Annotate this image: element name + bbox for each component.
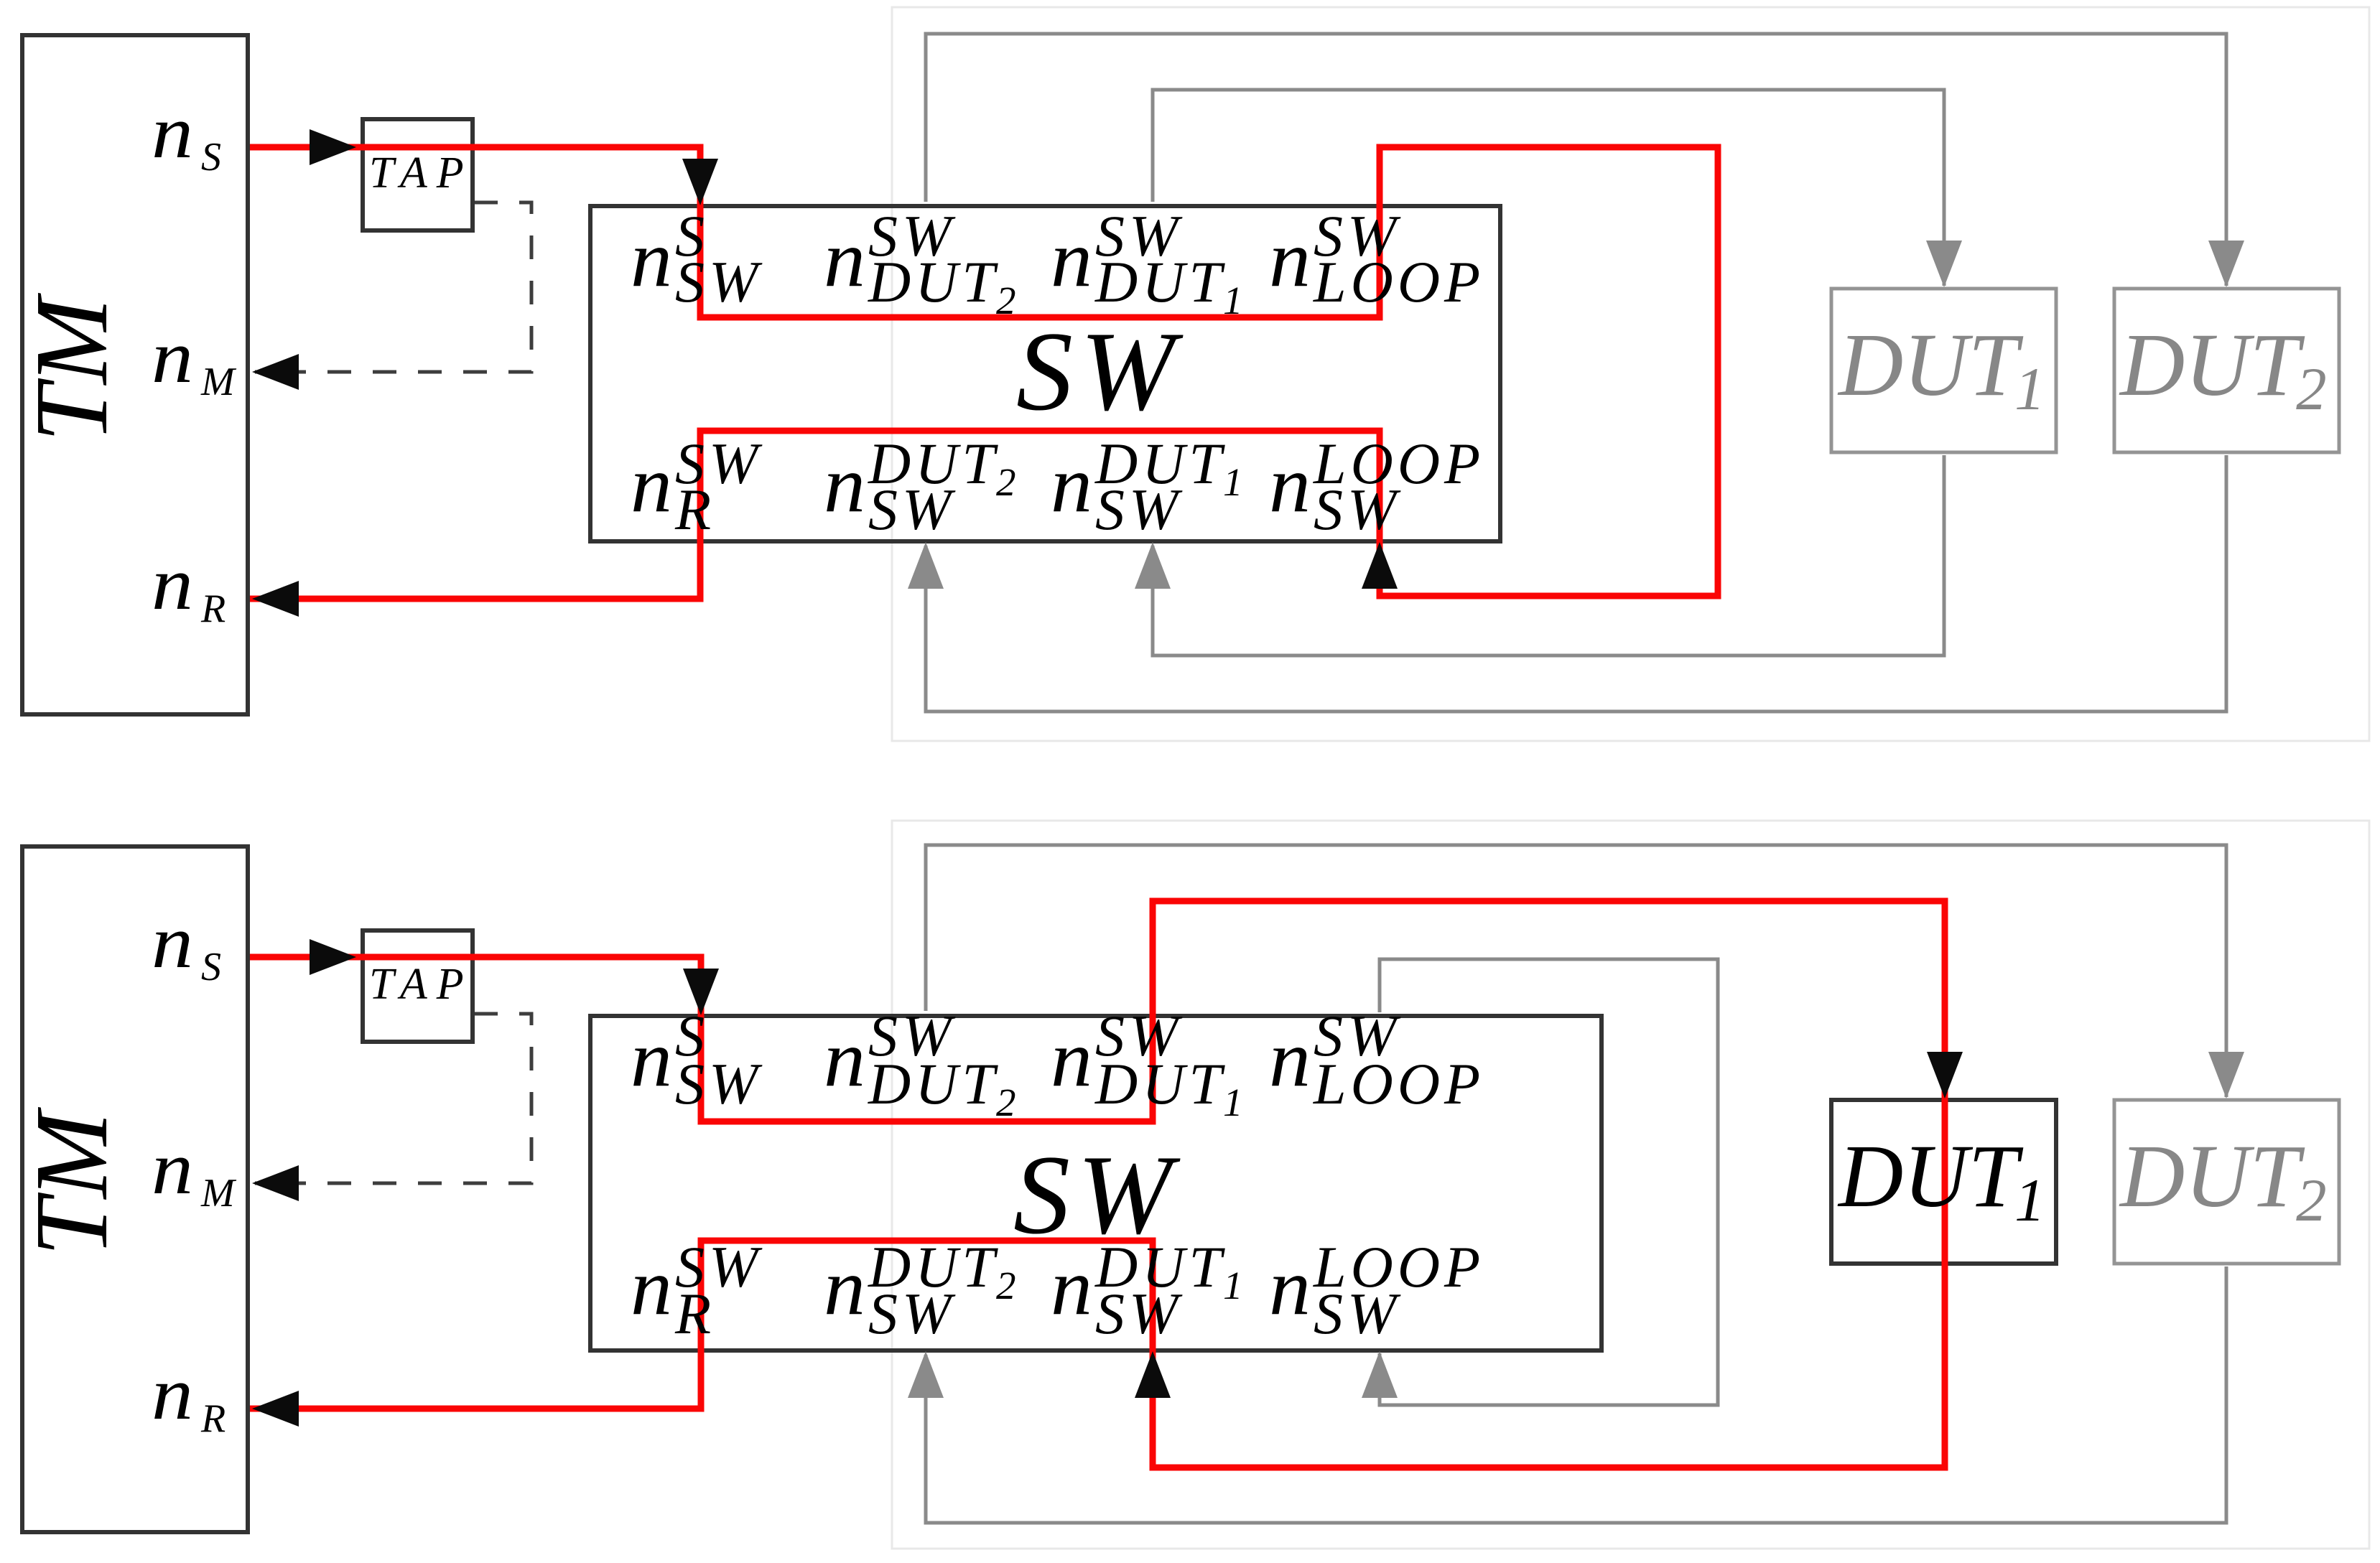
- svg-text:n: n: [631, 1243, 672, 1332]
- arrow gray down into DUT2 (bottom): [2208, 1052, 2244, 1098]
- arrow black left into TM nM dashed (bottom): [252, 1165, 299, 1201]
- box TM (top): [22, 35, 248, 714]
- port label n^S_SW (top row, bottom diagram): [631, 1003, 763, 1116]
- svg-text:DUT2: DUT2: [868, 1051, 1021, 1124]
- port label n^SW_LOOP (top row, bottom diagram): [1269, 1003, 1484, 1116]
- wire red LOOP return into SW (top diagram): [1040, 431, 1548, 596]
- dashed monitor wire TAP to nM (top diagram): [255, 202, 531, 372]
- box DUT1 (top, inactive gray): [1831, 289, 2056, 452]
- svg-text:TAP: TAP: [369, 149, 473, 197]
- svg-text:S: S: [201, 135, 221, 179]
- svg-text:n: n: [631, 440, 672, 529]
- box SW (top): [590, 206, 1500, 541]
- svg-text:SW: SW: [1314, 477, 1401, 542]
- svg-text:S: S: [201, 945, 221, 989]
- svg-text:n: n: [152, 314, 193, 398]
- svg-text:DUT1: DUT1: [1837, 316, 2045, 423]
- box TAP (bottom): [363, 930, 473, 1042]
- wire red inside SW to TM nR (bottom diagram): [250, 1241, 926, 1409]
- arrow black left into TM nR (top): [252, 581, 299, 617]
- port label n^DUT2_SW (bottom row, bottom diagram): [824, 1234, 1021, 1346]
- svg-text:n: n: [631, 215, 672, 304]
- svg-text:n: n: [631, 1014, 672, 1104]
- svg-text:R: R: [200, 1396, 226, 1441]
- arrow black left into TM nR (bottom): [252, 1391, 299, 1427]
- wire red inside SW to DUT1 out port (bottom diagram): [926, 901, 1548, 1121]
- port label n^S_SW (top row, top diagram): [631, 203, 763, 314]
- svg-text:TM: TM: [14, 1106, 129, 1256]
- port label n^DUT1_SW (bottom row, bottom diagram): [1051, 1234, 1247, 1346]
- port label n^SW_DUT1 (top row, top diagram): [1051, 203, 1247, 322]
- svg-text:SW: SW: [1095, 477, 1183, 542]
- box DUT1 (bottom, active dark): [1831, 1100, 2056, 1264]
- svg-text:SW: SW: [1016, 309, 1184, 434]
- wire red LOOP right leg (top diagram): [1548, 147, 1718, 596]
- svg-text:R: R: [200, 587, 226, 631]
- svg-text:SW: SW: [1095, 1281, 1183, 1346]
- arrow gray up into SW bottom port DUT1_SW (top): [1135, 542, 1171, 589]
- svg-text:n: n: [824, 1014, 865, 1104]
- wire gray LOOP out of SW top (bottom diagram): [1380, 959, 1718, 1185]
- box TAP (top): [363, 119, 473, 230]
- svg-text:n: n: [1269, 1243, 1311, 1332]
- svg-text:SW: SW: [868, 477, 956, 542]
- port label n^LOOP_SW (bottom row, bottom diagram): [1269, 1234, 1484, 1346]
- svg-text:n: n: [1269, 440, 1311, 529]
- svg-text:n: n: [1269, 1014, 1311, 1104]
- arrow black left into TM nM dashed (top): [252, 354, 299, 390]
- wire gray SW port to DUT2 top (bottom diagram): [926, 845, 2226, 1097]
- svg-text:SW: SW: [868, 1281, 956, 1346]
- port label n^SW_R (bottom row, bottom diagram): [631, 1234, 763, 1346]
- port label n^SW_DUT2 (top row, top diagram): [824, 203, 1021, 322]
- port label n^DUT2_SW (bottom row, top diagram): [824, 431, 1021, 542]
- svg-text:TAP: TAP: [369, 960, 473, 1009]
- svg-text:n: n: [152, 1351, 193, 1435]
- svg-text:n: n: [152, 90, 193, 174]
- svg-text:DUT2: DUT2: [2119, 1127, 2327, 1234]
- svg-text:n: n: [152, 541, 193, 625]
- svg-text:n: n: [1051, 215, 1092, 304]
- wire red down through DUT1 (bottom diagram): [1548, 901, 1945, 1468]
- box DUT2 (top, inactive gray): [2114, 289, 2339, 452]
- wire gray LOOP return into SW bottom (bottom diagram): [1380, 1185, 1718, 1405]
- arrow black down into SW top port nS_SW (top): [682, 159, 718, 205]
- svg-text:LOOP: LOOP: [1313, 1051, 1484, 1116]
- wire red inside SW to LOOP out port (top diagram): [1040, 147, 1548, 317]
- arrow black up into SW bottom port LOOP_SW (top): [1362, 542, 1398, 589]
- svg-text:n: n: [152, 1126, 193, 1210]
- svg-text:n: n: [1051, 1014, 1092, 1104]
- arrow gray down into DUT1 (top): [1926, 241, 1962, 287]
- arrow black right into TAP (bottom nS): [310, 939, 356, 975]
- svg-text:LOOP: LOOP: [1313, 249, 1484, 314]
- dashed monitor wire TAP to nM (bottom diagram): [255, 1014, 531, 1183]
- wire gray DUT2 bottom back to SW (bottom diagram): [926, 1266, 2226, 1523]
- wire red DUT1 return into SW (bottom diagram): [926, 1241, 1548, 1468]
- svg-text:n: n: [1051, 440, 1092, 529]
- wire gray SW port to DUT2 top (top diagram): [926, 34, 2226, 286]
- frame of included figure (bottom): [892, 821, 2369, 1549]
- box TM (bottom): [22, 846, 248, 1532]
- svg-text:n: n: [1051, 1243, 1092, 1332]
- wire gray SW port to DUT1 top (top diagram): [1153, 90, 1944, 286]
- svg-text:n: n: [824, 215, 865, 304]
- arrow gray up into SW bottom port DUT2_SW (top): [908, 542, 944, 589]
- svg-text:R: R: [674, 477, 715, 542]
- svg-text:n: n: [1269, 215, 1311, 304]
- svg-text:DUT2: DUT2: [868, 249, 1021, 322]
- port label n^DUT1_SW (bottom row, top diagram): [1051, 431, 1247, 542]
- arrow gray up into SW bottom port LOOP_SW (bottom): [1362, 1351, 1398, 1398]
- wire red nS from TM to SW entry (top diagram): [250, 147, 1040, 317]
- svg-text:SW: SW: [675, 249, 763, 314]
- port label n^SW_DUT1 (top row, bottom diagram): [1051, 1003, 1247, 1124]
- frame of included figure (top): [892, 7, 2369, 741]
- svg-text:R: R: [674, 1281, 715, 1346]
- svg-text:SW: SW: [1314, 1281, 1401, 1346]
- svg-text:M: M: [200, 1171, 237, 1216]
- wire red inside SW to TM nR (top diagram): [250, 431, 1040, 599]
- svg-text:DUT1: DUT1: [1094, 1051, 1247, 1124]
- port label n^SW_LOOP (top row, top diagram): [1269, 203, 1484, 314]
- arrow black up into SW bottom port DUT1_SW (bottom): [1135, 1351, 1171, 1398]
- arrow gray up into SW bottom port DUT2_SW (bottom): [908, 1351, 944, 1398]
- arrow gray down into DUT2 (top): [2208, 241, 2244, 287]
- port label n^LOOP_SW (bottom row, top diagram): [1269, 431, 1484, 542]
- box DUT2 (bottom, inactive gray): [2114, 1100, 2339, 1264]
- svg-text:n: n: [152, 900, 193, 984]
- svg-text:n: n: [824, 1243, 865, 1332]
- port label n^SW_R (bottom row, top diagram): [631, 431, 763, 542]
- svg-text:DUT1: DUT1: [1837, 1127, 2045, 1234]
- arrow black right into TAP (top nS): [310, 129, 356, 165]
- svg-text:TM: TM: [14, 292, 129, 442]
- svg-text:DUT2: DUT2: [2119, 316, 2327, 423]
- svg-text:SW: SW: [675, 1051, 763, 1116]
- wire gray DUT1 bottom back to SW (top diagram): [1153, 455, 1944, 655]
- svg-text:DUT1: DUT1: [1094, 249, 1247, 322]
- arrow black down into DUT1 (bottom): [1927, 1052, 1963, 1098]
- box SW (bottom): [590, 1016, 1602, 1350]
- svg-text:M: M: [200, 360, 237, 404]
- wire red nS from TM to SW entry (bottom diagram): [250, 957, 926, 1121]
- svg-text:n: n: [824, 440, 865, 529]
- arrow black down into SW top port nS_SW (bottom): [683, 969, 719, 1015]
- port label n^SW_DUT2 (top row, bottom diagram): [824, 1003, 1021, 1124]
- wire gray DUT2 bottom back to SW (top diagram): [926, 455, 2226, 711]
